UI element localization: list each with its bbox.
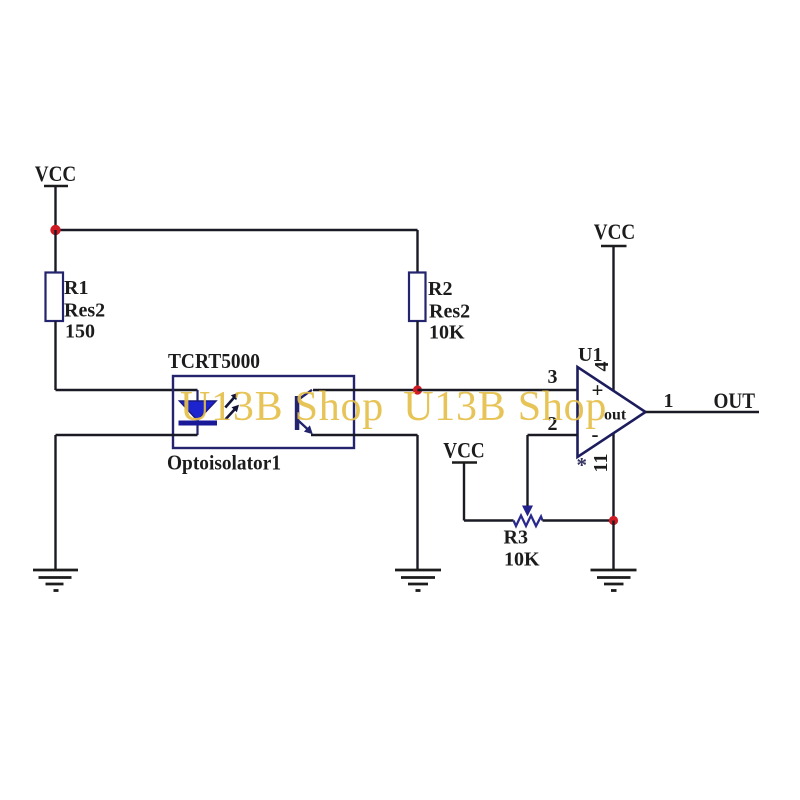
light arrow 1 (225, 393, 238, 408)
svg-text:U13B Shop U13B Shop: U13B Shop U13B Shop (180, 384, 607, 430)
potentiometer R3 zigzag (514, 516, 543, 527)
LED anode stub (196, 390, 198, 402)
wire emitter horizontal (311, 434, 418, 436)
power symbol VCC (op-amp) (594, 219, 636, 521)
wire VCC rail horizontal (56, 229, 418, 231)
resistor R1 (46, 273, 64, 322)
wire LED cathode to ground run (56, 434, 198, 436)
svg-text:Res2: Res2 (429, 301, 470, 323)
junction dot node VCC/R1 (50, 225, 60, 235)
ground GND1 (left) (33, 570, 78, 591)
ground GND2 (middle) (395, 570, 441, 591)
svg-text:VCC: VCC (594, 219, 636, 244)
wire VCC to R3 (464, 519, 514, 521)
wire junction to ground (612, 521, 614, 571)
wire R2 bottom vertical (416, 321, 418, 390)
svg-text:*: * (577, 453, 588, 477)
svg-text:150: 150 (65, 321, 95, 343)
power symbol VCC (top left) (35, 161, 77, 230)
svg-text:1: 1 (664, 390, 674, 412)
svg-text:Res2: Res2 (64, 300, 105, 322)
svg-text:R3: R3 (504, 527, 528, 549)
wire pin2 input (528, 434, 578, 436)
wire wiper vertical (526, 435, 528, 506)
LED D1 triangle (180, 401, 217, 421)
wire pin3 input (418, 389, 578, 391)
resistor R2 (409, 273, 426, 322)
junction dot node R3/pin11 (609, 516, 618, 525)
wire left ground vertical (54, 435, 56, 570)
wire collector to junction (313, 389, 418, 391)
svg-text:VCC: VCC (35, 161, 77, 186)
svg-text:R2: R2 (428, 278, 452, 300)
light arrow 2 (226, 405, 239, 420)
wire emitter ground vertical (416, 435, 418, 570)
phototransistor emitter stroke (299, 421, 309, 430)
svg-text:4: 4 (591, 362, 613, 372)
svg-text:Optoisolator1: Optoisolator1 (167, 451, 281, 475)
wire output (646, 411, 760, 413)
power symbol VCC (R3) (443, 438, 485, 521)
junction dot node R2/collector (413, 385, 422, 394)
wire R2 top vertical (416, 230, 418, 273)
svg-text:10K: 10K (429, 322, 465, 344)
svg-text:TCRT5000: TCRT5000 (168, 349, 260, 373)
wire R3 to junction (543, 519, 614, 521)
svg-text:10K: 10K (504, 549, 540, 571)
wire R1 bottom vertical (54, 321, 56, 390)
LED cathode bar (179, 421, 218, 426)
phototransistor Q base bar (295, 396, 300, 430)
svg-text:11: 11 (590, 454, 612, 473)
svg-text:R1: R1 (64, 277, 88, 299)
R3 wiper arrow (522, 506, 533, 517)
phototransistor collector stroke (299, 390, 313, 400)
op-amp U1 triangle (578, 367, 646, 457)
svg-text:OUT: OUT (714, 388, 756, 413)
svg-text:out: out (604, 407, 627, 424)
svg-text:VCC: VCC (443, 438, 485, 463)
phototransistor emitter arrowhead (304, 425, 313, 434)
wire R1 top vertical (54, 230, 56, 273)
wire R1 to LED anode (56, 389, 198, 391)
ground GND3 (right) (591, 570, 637, 591)
LED cathode stub (196, 426, 198, 436)
optoisolator U-box outline (173, 376, 354, 448)
